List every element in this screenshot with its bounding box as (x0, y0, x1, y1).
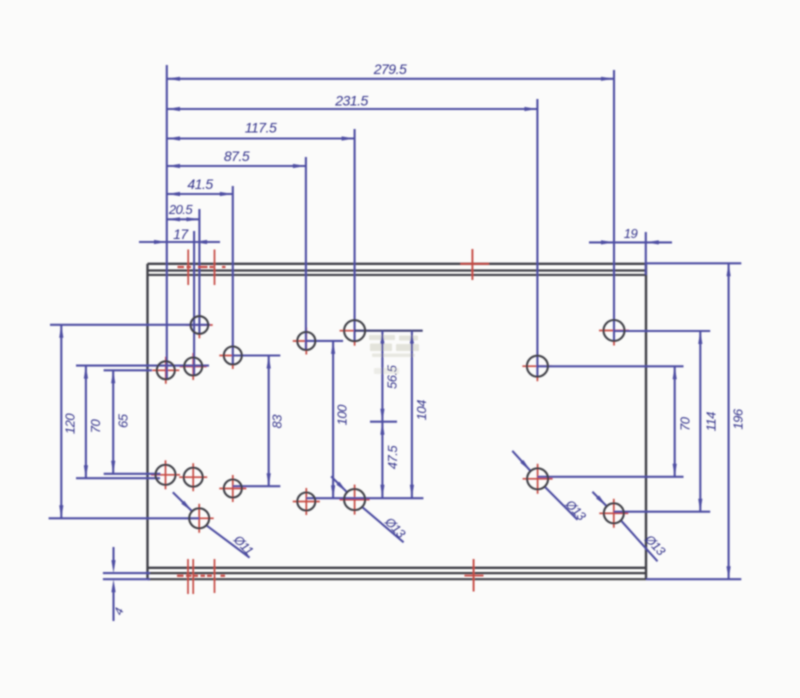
dimension 65 (112, 370, 114, 474)
svg-text:104: 104 (414, 400, 429, 420)
dimension 114 (699, 331, 701, 512)
dim 70R top ref line (537, 365, 683, 367)
hole diameter 11 outline (189, 508, 209, 528)
hole (87.5) centre cross (293, 340, 320, 342)
svg-text:47.5: 47.5 (385, 445, 400, 470)
hole mid bottom (100) outline (297, 493, 315, 511)
svg-text:17: 17 (173, 226, 189, 242)
svg-text:65: 65 (116, 413, 131, 428)
ext line to hole x614 (613, 70, 615, 341)
hole (87.5) outline (297, 332, 315, 350)
dimension 56.5 (381, 331, 383, 422)
svg-text:114: 114 (704, 412, 719, 431)
hole (279.5) centre cross (599, 330, 629, 332)
dimension 120 (60, 325, 62, 519)
hole diameter 13 mid centre cross (340, 499, 370, 501)
hole (231.5) centre cross (522, 365, 552, 367)
dim 4 ext lines (103, 572, 150, 574)
svg-text:70: 70 (678, 416, 693, 431)
dim bottom ref line holes 13-14 (306, 497, 423, 499)
hole (117.5) centre cross (340, 330, 370, 332)
dim 56.5/47.5 middle crossbar (370, 421, 397, 423)
red cross top middle (471, 249, 473, 280)
dimension 47.5 (381, 422, 383, 498)
dimension 83 (268, 356, 270, 487)
dimension 17 (139, 241, 220, 243)
dim 100 top ref line (306, 340, 343, 342)
dimension 70 right (674, 366, 676, 477)
dim 114 bottom ref line (614, 511, 710, 513)
svg-text:87.5: 87.5 (224, 148, 250, 164)
ext line to hole x194 (193, 231, 195, 375)
hole diameter 13 mid outline (344, 489, 365, 510)
dim 120 bottom ref line (49, 517, 200, 519)
svg-text:231.5: 231.5 (334, 93, 368, 109)
leader diameter 13 mid (331, 476, 347, 492)
hole left col lower B centre cross (179, 476, 207, 478)
dim 114 top ref line (614, 330, 710, 332)
dim 65 bottom ref line (104, 473, 161, 475)
hole (279.5) outline (604, 320, 625, 341)
hole (83 bottom) centre cross (219, 488, 246, 490)
dim 65 top ref line (104, 369, 152, 371)
svg-text:41.5: 41.5 (187, 176, 213, 192)
hole left col lower A outline (156, 465, 176, 485)
hole diameter 11 centre cross (185, 517, 214, 519)
leader diameter 11 (173, 492, 192, 511)
svg-text:120: 120 (63, 413, 78, 434)
hole mid bottom (100) centre cross (293, 501, 320, 503)
hole left col upper B outline (184, 358, 202, 376)
leader diameter 13 far-right (592, 492, 606, 506)
red centre marks top edge (187, 250, 189, 286)
dimension 196 (728, 263, 730, 579)
hole left col lower B outline (184, 468, 203, 487)
dimension 279.5 (167, 78, 614, 80)
dimension 104 (411, 331, 413, 498)
faint watermark (369, 335, 419, 374)
dim 83 top ref line (233, 354, 280, 356)
svg-text:279.5: 279.5 (373, 61, 407, 77)
hole left col upper A centre cross (152, 369, 179, 371)
red centre marks bottom edge (187, 559, 189, 594)
dimension 87.5 (167, 165, 306, 167)
plate left edge (146, 264, 148, 579)
dimension 20.5 (167, 218, 199, 220)
svg-text:56.5: 56.5 (385, 364, 400, 389)
dimension 19 (589, 241, 672, 243)
leader diameter 13 right-lower (512, 451, 530, 471)
hole (231.5) outline (527, 356, 548, 377)
svg-text:19: 19 (624, 226, 638, 241)
svg-text:196: 196 (731, 408, 746, 429)
hole diameter 13 far-right outline (604, 503, 624, 523)
hole (41.5) outline (224, 347, 242, 365)
hole diameter 13 right-lower centre cross (523, 478, 553, 480)
hole left col upper A outline (157, 361, 175, 379)
hole top-left small (20.5) centre cross (186, 324, 213, 326)
dim 120 top ref line (50, 324, 210, 326)
red cross bottom middle (473, 559, 475, 592)
ext line to hole x199 (198, 209, 200, 334)
dimension 117.5 (167, 137, 355, 139)
ext line to hole x354 (354, 129, 356, 341)
ext line to hole x233 (232, 186, 234, 364)
hole (41.5) centre cross (219, 355, 246, 357)
dimension 4 (112, 547, 114, 562)
hole left col lower A centre cross (151, 474, 180, 476)
dimension 70 left (85, 366, 87, 479)
dim 196 bottom ref line (646, 578, 741, 580)
svg-text:83: 83 (270, 414, 285, 429)
hole (117.5) outline (344, 320, 365, 341)
dimension 100 (332, 341, 334, 498)
ext line to hole x537 (536, 99, 538, 376)
dim 70 top ref line (76, 365, 209, 367)
dim 196 top ref line (646, 262, 741, 264)
dim 70 bottom ref line (76, 477, 160, 479)
plate right edge (645, 264, 647, 579)
ext line baseline x167 (166, 65, 168, 379)
plate top edge lines (148, 263, 647, 265)
dim 83 bottom ref line (233, 485, 280, 487)
svg-text:117.5: 117.5 (245, 120, 277, 136)
svg-text:100: 100 (335, 404, 350, 425)
ext line to hole x306 (305, 157, 307, 350)
plate bottom edge lines (148, 567, 647, 569)
hole diameter 13 far-right centre cross (599, 512, 628, 514)
svg-text:20.5: 20.5 (168, 202, 194, 217)
hole top-left small (20.5) outline (191, 316, 209, 334)
ext line 19 right (645, 232, 647, 275)
dim 104/56.5 top ref line (355, 330, 423, 332)
dimension 231.5 (167, 108, 537, 110)
dim 70R bottom ref line (538, 476, 684, 478)
dimension 41.5 (167, 193, 233, 195)
hole (83 bottom) outline (224, 480, 242, 498)
hole diameter 13 right-lower outline (527, 468, 548, 489)
svg-text:70: 70 (88, 419, 103, 434)
hole left col upper B centre cross (180, 366, 207, 368)
